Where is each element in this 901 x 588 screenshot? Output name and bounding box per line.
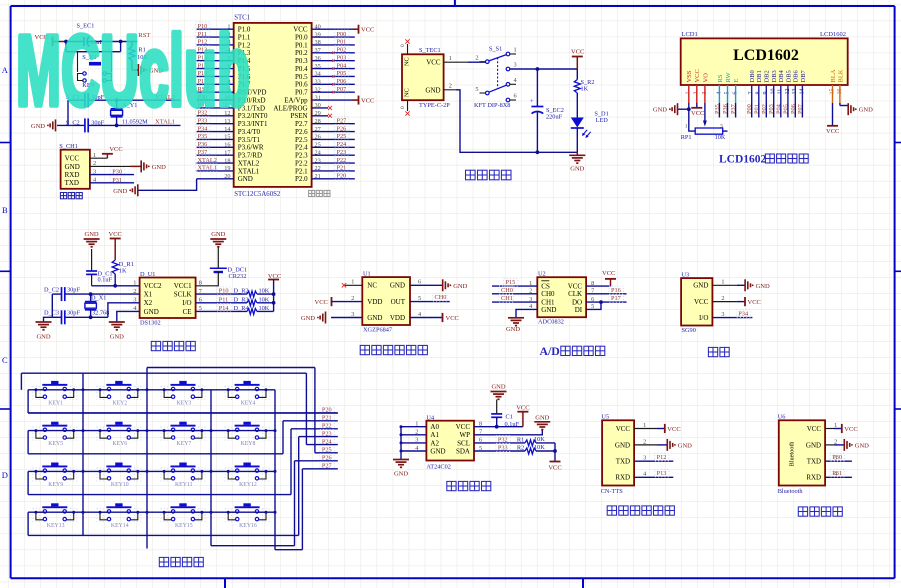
svg-text:RW: RW: [725, 72, 732, 83]
svg-text:VCC: VCC: [694, 298, 709, 306]
svg-text:X2: X2: [144, 299, 153, 307]
svg-text:VCC: VCC: [748, 299, 761, 306]
wire XTAL2 net: [68, 98, 181, 102]
ground bluetooth: [844, 439, 869, 451]
svg-text:P2.5: P2.5: [295, 136, 308, 144]
svg-text:P21: P21: [337, 165, 347, 172]
svg-text:0.1uF: 0.1uF: [98, 277, 113, 284]
svg-text:GND: GND: [535, 414, 549, 421]
wire keyboard row 3: [28, 471, 275, 494]
lcd pin 15 BLA: [829, 69, 837, 94]
wire lcd DB0 net P00: [746, 85, 753, 118]
svg-text:VCC: VCC: [516, 404, 529, 411]
label 蓝牙模块: [798, 507, 842, 516]
wire lcd DB2 net P02: [761, 85, 768, 118]
svg-text:P24: P24: [337, 141, 348, 148]
ground U1 pin3: [301, 312, 362, 324]
mcu STC1 pin 37 wire: [312, 46, 355, 54]
pushbutton KEY12: [225, 463, 269, 489]
svg-text:16: 16: [224, 142, 230, 149]
ground at mcu pin 20: [113, 184, 138, 196]
power VCC supply rail: [571, 49, 584, 70]
wire keyboard column3 bottom to P26: [211, 461, 295, 546]
svg-text:CLK: CLK: [568, 290, 582, 298]
svg-text:DB0: DB0: [749, 70, 756, 82]
svg-text:KEY15: KEY15: [175, 523, 193, 529]
wire U4 address pins to ground bus: [400, 425, 427, 459]
sensor U1 XGZP6847 body: [351, 271, 422, 334]
svg-text:30pF: 30pF: [67, 287, 80, 294]
wire crystal ground rail: [44, 294, 108, 322]
wire U2 pin4 to ground: [516, 309, 537, 317]
svg-text:0: 0: [400, 106, 406, 109]
svg-text:LCD1602: LCD1602: [733, 47, 799, 64]
wire lcd BLK to ground: [840, 85, 848, 109]
svg-text:DB3: DB3: [771, 70, 778, 82]
svg-text:VCC: VCC: [826, 128, 839, 135]
mcu STC1 pin 17 wire: [196, 148, 234, 156]
svg-text:6: 6: [514, 93, 517, 100]
svg-text:DI: DI: [575, 306, 583, 314]
svg-text:GND: GND: [693, 282, 708, 290]
svg-text:GND: GND: [367, 314, 382, 322]
svg-text:P31: P31: [832, 470, 842, 477]
lcd pin 7 DB0: [749, 70, 757, 94]
svg-text:P2.1: P2.1: [295, 167, 308, 175]
svg-text:KEY8: KEY8: [241, 441, 256, 447]
wire lcd DB6 net P06: [790, 85, 797, 118]
wire keyboard row 2: [28, 431, 275, 454]
wire U6 pin3 net P30: [825, 453, 852, 461]
svg-text:10K: 10K: [259, 296, 270, 303]
power VCC download port: [102, 146, 123, 154]
mcu STC1 pin 39 wire: [312, 30, 355, 38]
led S_D1: [571, 111, 609, 153]
svg-text:SG90: SG90: [682, 327, 696, 334]
svg-text:GND: GND: [855, 442, 869, 449]
mcu STC1 pin 36 wire: [312, 54, 355, 62]
mcu STC1 pin 27 wire: [312, 125, 355, 133]
mcu STC1 pin 6 wire: [196, 62, 234, 70]
lcd pin 5 RW: [724, 72, 732, 95]
label 语音播报模块: [607, 506, 674, 515]
svg-text:XTAL2: XTAL2: [238, 159, 260, 167]
svg-text:2: 2: [721, 295, 724, 302]
svg-text:VCC: VCC: [571, 49, 584, 56]
wire U2 pin2 net CH0: [492, 286, 537, 294]
svg-text:KEY9: KEY9: [48, 482, 63, 488]
lcd pin 13 DB6: [792, 69, 800, 94]
pushbutton KEY3: [161, 381, 205, 407]
svg-text:2: 2: [643, 438, 646, 445]
lcd pin 16 BLK: [837, 69, 845, 94]
svg-text:P3.7/RD: P3.7/RD: [238, 152, 262, 160]
svg-text:P02: P02: [761, 104, 768, 114]
wire keyboard row 4: [28, 512, 275, 535]
wire lcd DB4 net P04: [775, 85, 782, 118]
svg-text:P00: P00: [337, 31, 347, 38]
svg-text:GND: GND: [301, 315, 315, 322]
svg-text:P2.3: P2.3: [295, 152, 308, 160]
servo U3 SG90 body: [681, 272, 724, 335]
svg-text:P34: P34: [738, 310, 749, 317]
wire U5 pin4 net P13: [634, 469, 673, 477]
crystal D_X1 32.768: [85, 294, 109, 317]
svg-text:P3.4/T0: P3.4/T0: [238, 128, 261, 136]
net label XTAL2: [155, 94, 175, 101]
label 矩阵键盘: [159, 557, 203, 566]
svg-text:P0.0: P0.0: [295, 33, 308, 41]
power VCC U2: [602, 270, 616, 279]
svg-text:220uF: 220uF: [546, 114, 563, 121]
svg-text:1: 1: [449, 55, 452, 62]
svg-text:P0.2: P0.2: [295, 49, 308, 57]
svg-text:CH0: CH0: [541, 290, 555, 298]
svg-text:DB4: DB4: [778, 69, 785, 82]
pushbutton KEY10: [97, 463, 141, 489]
svg-text:P2.6: P2.6: [295, 128, 308, 136]
svg-text:P35: P35: [714, 104, 721, 114]
svg-text:KEY13: KEY13: [47, 523, 65, 529]
svg-text:19: 19: [224, 165, 230, 172]
svg-text:D_X1: D_X1: [91, 295, 106, 302]
svg-text:P07: P07: [337, 86, 347, 93]
wire U2 pin7 net P16: [586, 286, 626, 294]
svg-text:2: 2: [449, 82, 452, 89]
svg-text:P36: P36: [198, 141, 208, 148]
svg-text:GND: GND: [541, 306, 556, 314]
svg-text:P06: P06: [337, 78, 347, 85]
lcd pin 1 VSS: [686, 70, 694, 94]
net label P25: [315, 446, 338, 454]
svg-text:CH0: CH0: [435, 294, 447, 301]
svg-text:LCD1: LCD1: [682, 31, 698, 38]
svg-text:P06: P06: [790, 104, 797, 114]
svg-text:P05: P05: [782, 104, 789, 114]
svg-text:D_U1: D_U1: [140, 271, 155, 278]
svg-text:MCUclub: MCUclub: [16, 15, 250, 127]
ground voice: [667, 439, 692, 451]
svg-text:VCC: VCC: [109, 231, 122, 238]
svg-text:P04: P04: [775, 103, 782, 114]
mcu STC1 pin 5 wire: [196, 54, 234, 62]
lcd pin 12 DB5: [785, 70, 793, 94]
wire S_CH1 pin3 P30: [90, 168, 134, 176]
mcu STC1 pin 14 wire: [196, 125, 234, 133]
resistor D_R1 1K: [112, 260, 134, 286]
tts U5 CN-TTS body: [601, 414, 647, 495]
svg-text:KEY1: KEY1: [48, 400, 63, 406]
ground at reset resistor: [132, 64, 163, 76]
resistor D_R2 10K pullup P10: [196, 287, 274, 297]
svg-text:18: 18: [224, 157, 230, 164]
svg-text:B: B: [2, 205, 8, 215]
pushbutton KEY5: [33, 422, 77, 448]
wire XTAL1 net: [57, 100, 181, 127]
svg-text:A0: A0: [430, 423, 439, 431]
lcd pin 9 DB2: [763, 70, 771, 94]
svg-text:VCC: VCC: [456, 423, 471, 431]
ground lcd right: [848, 103, 873, 115]
mcu STC1 pin 18 wire: [196, 156, 234, 164]
svg-text:GND: GND: [65, 163, 80, 171]
svg-text:P22: P22: [337, 157, 347, 164]
svg-text:GND: GND: [113, 188, 127, 195]
svg-text:D: D: [2, 470, 8, 480]
svg-text:SCLK: SCLK: [174, 291, 192, 299]
wire lcd E net P37: [730, 85, 737, 118]
wire lcd RW net P36: [722, 85, 729, 118]
wire keyboard row2 to P21: [28, 421, 283, 454]
power VCC at mcu pin 31 EA/Vpp: [359, 96, 375, 105]
wire keyboard row 1: [28, 390, 275, 413]
svg-text:VDD: VDD: [390, 314, 405, 322]
lcd pin 2 VCC: [694, 69, 702, 94]
mcu STC1 pin 29 wire: [312, 110, 328, 117]
svg-text:RXD: RXD: [806, 474, 821, 482]
svg-text:VCC: VCC: [293, 26, 308, 34]
svg-text:1: 1: [514, 47, 517, 54]
svg-text:CH0: CH0: [501, 287, 513, 294]
no-connect marker mcu pin 30: [328, 106, 332, 110]
mcu STC1 pin 26 wire: [312, 132, 355, 140]
bluetooth U6 body: [778, 414, 838, 495]
svg-text:P23: P23: [337, 149, 347, 156]
mcu STC1 pin 9 wire: [196, 85, 234, 93]
svg-text:3: 3: [720, 124, 723, 130]
mcu STC1 pin 38 wire: [312, 38, 355, 46]
svg-text:ADC0832: ADC0832: [538, 319, 564, 326]
svg-text:KEY11: KEY11: [175, 482, 193, 488]
svg-text:P33: P33: [498, 444, 508, 451]
svg-text:GND: GND: [425, 86, 440, 94]
wire U6 pin4 net P31: [825, 469, 852, 477]
svg-text:STC12C5A60S2: STC12C5A60S2: [234, 191, 281, 198]
lcd pin 6 E: [733, 79, 741, 95]
svg-text:E: E: [733, 79, 740, 83]
svg-text:Bluetooth: Bluetooth: [789, 441, 796, 467]
wire lcd DB3 net P03: [768, 85, 775, 118]
svg-text:VCC1: VCC1: [174, 282, 192, 290]
mcu STC1 pin 19 wire: [196, 164, 234, 172]
pushbutton KEY6: [97, 422, 141, 448]
wire S_CH1 pin4 P31: [90, 176, 134, 184]
wire keyboard column 1: [82, 373, 85, 535]
svg-text:P37: P37: [730, 104, 737, 114]
svg-text:KEY6: KEY6: [112, 441, 127, 447]
svg-text:C: C: [2, 355, 8, 365]
svg-text:1: 1: [351, 279, 354, 286]
wire keyboard row4 to P23: [28, 437, 299, 536]
wire lcd VO to potentiometer: [703, 85, 707, 127]
svg-text:D_C2: D_C2: [44, 287, 59, 294]
wire S_CH1 pin2 to ground: [90, 165, 141, 167]
net label P24: [306, 438, 337, 446]
svg-text:WP: WP: [460, 431, 471, 439]
svg-text:A: A: [2, 65, 9, 75]
capacitor D_C1 0.1uF: [86, 249, 112, 286]
svg-text:DB7: DB7: [800, 69, 807, 82]
svg-text:VCC: VCC: [602, 270, 615, 277]
svg-text:P26: P26: [337, 125, 347, 132]
svg-text:P2.2: P2.2: [295, 159, 308, 167]
mcu STC1 pin 3 wire: [196, 38, 234, 46]
svg-text:DB1: DB1: [756, 70, 763, 82]
svg-text:VCC: VCC: [426, 59, 441, 67]
svg-text:P0.6: P0.6: [295, 81, 308, 89]
pushbutton KEY8: [225, 422, 269, 448]
svg-text:KFT DIP-8X8: KFT DIP-8X8: [474, 102, 510, 109]
svg-text:U6: U6: [778, 414, 786, 421]
svg-text:BLA: BLA: [830, 69, 837, 82]
svg-text:GND: GND: [615, 441, 630, 449]
wire U3 pin1 to ground: [712, 284, 745, 286]
svg-text:EA/Vpp: EA/Vpp: [284, 96, 308, 104]
wire keyboard row3 to P22: [28, 429, 291, 495]
ground battery: [210, 231, 226, 268]
svg-text:NC: NC: [404, 57, 411, 66]
svg-text:P2.0: P2.0: [295, 175, 308, 183]
svg-text:VCC: VCC: [691, 110, 704, 117]
svg-text:10K: 10K: [534, 444, 545, 451]
svg-text:VSS: VSS: [686, 70, 693, 82]
wire switch pin3 to VCC rail: [510, 67, 578, 71]
svg-text:DB5: DB5: [785, 70, 792, 82]
wire U2 pin8 to VCC: [586, 279, 610, 286]
svg-text:NC: NC: [367, 282, 377, 290]
pushbutton KEY11: [161, 463, 205, 489]
mcu STC1 pin 22 wire: [312, 164, 355, 172]
svg-text:CR232: CR232: [229, 273, 247, 280]
battery D_DC1 CR232: [210, 267, 247, 281]
svg-text:VDD: VDD: [367, 298, 382, 306]
resistor D_R3 10K pullup P11: [196, 296, 274, 306]
svg-text:30pF: 30pF: [67, 310, 80, 317]
net label P27: [302, 462, 337, 470]
mcu STC1 pin 11 wire: [196, 101, 234, 109]
svg-text:P12: P12: [657, 454, 667, 461]
svg-text:CH1: CH1: [501, 295, 513, 302]
svg-text:P14: P14: [219, 305, 230, 312]
svg-text:VCC: VCC: [315, 299, 328, 306]
svg-text:KEY7: KEY7: [177, 441, 192, 447]
resistor S_R2 1K: [574, 69, 594, 118]
capacitor S_EC2 220uF: [530, 69, 564, 152]
mcu STC1 pin 32 wire: [312, 85, 355, 93]
lcd pin 11 DB4: [778, 69, 786, 94]
ground clock bottom-center: [109, 322, 125, 341]
wire U6 pin1 to VCC: [825, 428, 841, 430]
label 时钟模块: [151, 341, 195, 350]
svg-text:VCC: VCC: [109, 146, 122, 153]
mcu STC1 pin 24 wire: [312, 148, 355, 156]
svg-text:LED: LED: [596, 117, 609, 124]
wire keyboard column 4: [274, 390, 277, 550]
svg-text:VCC: VCC: [694, 69, 701, 82]
mcu STC1 pin 30 wire: [312, 102, 328, 109]
wire U2 pin1 net P15: [492, 278, 537, 286]
svg-text:Bluetooth: Bluetooth: [778, 488, 804, 495]
svg-text:P3.6/WR: P3.6/WR: [238, 144, 264, 152]
wire lcd BLA to VCC: [832, 85, 834, 125]
wire U2 pin6 net P17: [586, 294, 626, 302]
svg-text:P0.3: P0.3: [295, 57, 308, 65]
svg-text:U4: U4: [426, 414, 435, 421]
svg-text:GND: GND: [859, 107, 873, 114]
mcu STC1 pin 40 wire: [312, 23, 358, 30]
svg-text:P2.4: P2.4: [295, 144, 308, 152]
svg-text:P0.1: P0.1: [295, 41, 308, 49]
mcu STC1 pin 23 wire: [312, 156, 355, 164]
wire U2 pin5 tied to pin6: [586, 300, 603, 309]
svg-text:VCC: VCC: [361, 98, 374, 105]
svg-text:X1: X1: [144, 291, 153, 299]
svg-text:3: 3: [514, 62, 517, 69]
svg-text:P17: P17: [611, 295, 621, 302]
wire battery to clock pin8: [196, 272, 219, 286]
connector 下载口 comment: [60, 193, 82, 199]
svg-text:D_R2: D_R2: [234, 288, 249, 295]
ground clock top-left: [84, 231, 100, 247]
svg-text:I/O: I/O: [699, 314, 708, 322]
ground supply rail: [569, 152, 585, 172]
svg-text:RXD: RXD: [615, 474, 630, 482]
wire U1 OUT net CH0: [410, 293, 450, 301]
net label P22: [291, 422, 338, 430]
wire lcd DB7 net P07: [797, 85, 804, 118]
mcu STC1 pin 33 wire: [312, 77, 355, 85]
potentiometer RP1 10K: [681, 109, 728, 141]
svg-text:1: 1: [721, 279, 724, 286]
pushbutton KEY7: [161, 422, 205, 448]
svg-text:I/O: I/O: [182, 299, 191, 307]
svg-text:D_C3: D_C3: [44, 310, 59, 317]
lcd LCD1 body: [681, 31, 848, 85]
net label P26: [295, 454, 338, 462]
mcu STC1 pin 34 wire: [312, 69, 355, 77]
svg-text:RS: RS: [717, 74, 724, 82]
svg-text:VCC2: VCC2: [144, 282, 162, 290]
svg-text:1K: 1K: [119, 267, 127, 274]
no-connect pin bottom S_TEC1: [400, 100, 410, 116]
pushbutton KEY9: [33, 463, 77, 489]
eeprom U4 AT24C02 body: [415, 414, 482, 470]
svg-text:TXD: TXD: [65, 179, 79, 187]
svg-text:RP1: RP1: [681, 134, 692, 141]
wire keyboard column4 bottom to P27: [275, 469, 302, 550]
svg-text:10K: 10K: [259, 288, 270, 295]
capacitor S_C1 30pF: [66, 93, 105, 107]
svg-text:GND: GND: [144, 308, 159, 316]
svg-text:KEY2: KEY2: [112, 400, 127, 406]
svg-text:A/D: A/D: [540, 344, 560, 358]
svg-text:GND: GND: [756, 283, 770, 290]
svg-text:XTAL1: XTAL1: [238, 167, 260, 175]
power VCC lcd backlight: [826, 126, 839, 135]
svg-text:KEY5: KEY5: [48, 441, 63, 447]
svg-text:5: 5: [475, 86, 478, 93]
label A/D转换电路: [540, 344, 605, 358]
power VCC bluetooth: [842, 424, 858, 433]
ground crystal circuit: [31, 119, 56, 131]
wire U3 pin2 to VCC: [712, 301, 744, 303]
mcu STC1 pin 16 wire: [196, 140, 234, 148]
svg-text:P03: P03: [768, 104, 775, 114]
svg-text:TXD: TXD: [616, 458, 630, 466]
resistor D_R4 10K pullup P14: [196, 304, 274, 314]
capacitor S_EC1 10uF: [77, 23, 104, 47]
mcu U STC1 body: [234, 15, 312, 199]
